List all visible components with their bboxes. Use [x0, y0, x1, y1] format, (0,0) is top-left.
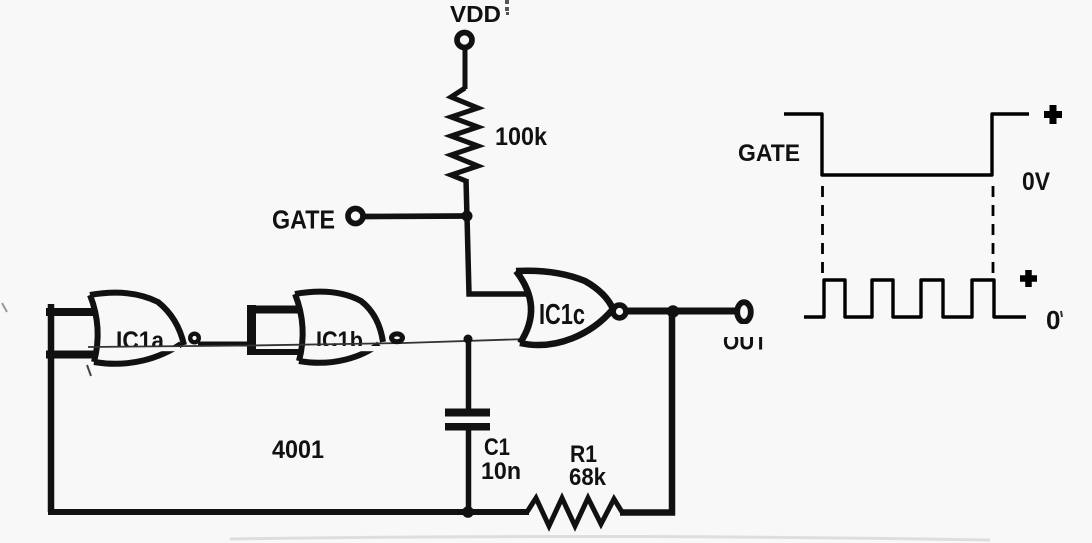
gate IC1a: [90, 293, 184, 364]
svg-text:GATE: GATE: [272, 205, 335, 235]
white band over IC1a bottom (scan cut): [100, 346, 180, 351]
junction C1 top: [464, 335, 473, 344]
scan shadow bottom: [230, 536, 990, 540]
wire IC1a out to IC1b box: [198, 342, 252, 347]
left edge tick: [2, 303, 7, 312]
svg-text:C1: C1: [484, 434, 510, 461]
wire feedback left vertical: [48, 304, 55, 512]
terminal GATE: [348, 209, 363, 224]
wire junction down to IC1c input: [467, 216, 528, 294]
junction C1/rail: [462, 506, 474, 518]
bubble IC1c: [613, 305, 626, 318]
resistor 100k: [451, 88, 478, 181]
capacitor C1: [445, 409, 490, 417]
wire bottom rail: [48, 509, 529, 515]
stray scan tick: [87, 365, 91, 376]
scan tick right of 0: [1061, 311, 1062, 317]
IC1b input box: [247, 305, 256, 355]
white band over IC1b bottom (scan cut): [305, 346, 383, 351]
svg-text:100k: 100k: [495, 123, 547, 151]
bubble IC1a: [190, 334, 199, 343]
svg-text:68k: 68k: [569, 464, 607, 491]
waveform GATE trace: [784, 114, 1029, 175]
svg-text:GATE: GATE: [738, 140, 800, 167]
svg-text:4001: 4001: [272, 436, 324, 464]
wire VDD to R 100k: [463, 49, 468, 89]
terminal OUT: [737, 302, 751, 322]
wire IC1c out to OUT: [628, 308, 736, 315]
wire to C1: [466, 339, 472, 410]
wire output down to R1: [620, 311, 672, 513]
plus bottom: [1020, 270, 1037, 287]
plus top: [1044, 105, 1062, 124]
wire C1 to rail: [466, 429, 472, 512]
resistor R1: [527, 498, 622, 526]
dashed line left: [821, 186, 824, 278]
wire GATE to junction: [365, 213, 468, 219]
white band over OUT label top (scan cut): [716, 324, 774, 337]
wire R 100k to junction: [466, 179, 467, 218]
scan artifact dots: [505, 0, 509, 15]
svg-text:10n: 10n: [481, 458, 521, 485]
svg-text:0: 0: [1046, 305, 1060, 335]
gate IC1c: [516, 271, 613, 345]
junction output: [667, 305, 679, 317]
gate IC1b: [295, 292, 383, 363]
svg-text:IC1c: IC1c: [539, 299, 585, 331]
svg-text:0V: 0V: [1022, 168, 1050, 196]
junction gate/100k: [462, 211, 473, 222]
dashed line right: [992, 186, 995, 278]
terminal VDD: [457, 33, 472, 48]
waveform burst trace: [804, 280, 1026, 317]
thin wire line through gates to IC1c input: [88, 339, 527, 347]
svg-text:VDD: VDD: [450, 1, 501, 27]
wire IC1a input stubs: [46, 308, 94, 316]
bubble IC1b: [392, 334, 403, 342]
